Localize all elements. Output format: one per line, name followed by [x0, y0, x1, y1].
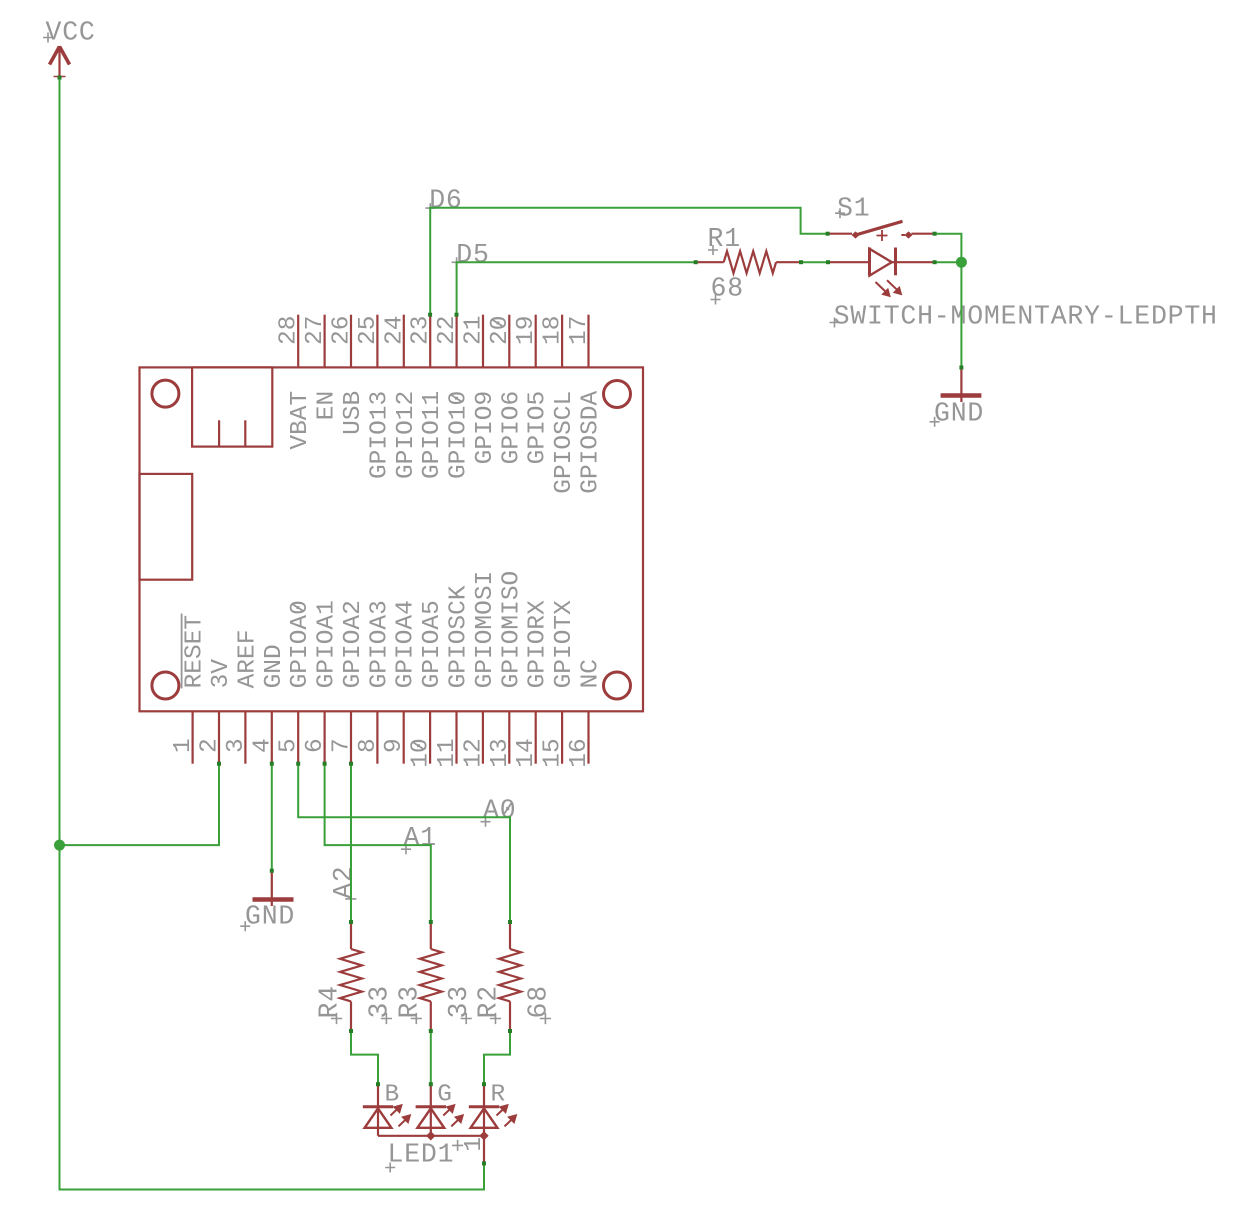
ic U1 pin 8 number: [355, 738, 382, 753]
wire VCC to pin 2: [60, 764, 220, 845]
label D6: [425, 185, 462, 215]
switch S1 contacts: [828, 221, 935, 241]
svg-text:GPIOA2: GPIOA2: [340, 600, 367, 688]
ic U1 pin 19 name GPIO5: [525, 391, 552, 465]
junction LED1 R anode: [479, 1131, 488, 1140]
label R: [491, 1081, 506, 1108]
ic U1 pin 12 name GPIOMOSI: [472, 571, 499, 689]
label GND left: [240, 902, 295, 932]
svg-text:GPIOSDA: GPIOSDA: [578, 391, 605, 494]
label R1: [708, 224, 741, 255]
wire pin 4 to GND: [271, 764, 273, 871]
ic U1 pin 26 stub: [350, 315, 352, 368]
svg-text:1: 1: [461, 1137, 488, 1152]
svg-text:RESET: RESET: [182, 615, 209, 689]
svg-text:8: 8: [355, 738, 382, 753]
ic U1 pin 6 stub: [324, 711, 326, 763]
svg-text:LED1: LED1: [388, 1140, 455, 1170]
ic U1 pin 13 number: [487, 738, 514, 767]
resistor R2: [499, 922, 521, 1031]
ic U1 pin 21 stub: [482, 315, 484, 368]
svg-text:33: 33: [444, 985, 474, 1018]
svg-text:GND: GND: [245, 902, 295, 932]
ic U1 pin 28 name VBAT: [287, 391, 314, 450]
ic U1 pin 14 name GPIORX: [525, 600, 552, 689]
svg-text:33: 33: [364, 985, 394, 1018]
ic U1 pin 24 name GPIO12: [393, 391, 420, 479]
label A0 zero slash: [504, 802, 512, 815]
resistor R3: [420, 922, 442, 1031]
svg-text:GPIOMOSI: GPIOMOSI: [472, 571, 499, 689]
svg-text:68: 68: [523, 985, 553, 1018]
svg-text:3V: 3V: [208, 659, 235, 689]
ic U1 pin 18 name GPIOSCL: [551, 391, 578, 494]
svg-text:G: G: [437, 1081, 452, 1108]
ic U1 pin 8 name GPIOA3: [366, 600, 393, 688]
svg-text:GPIO9: GPIO9: [472, 391, 499, 465]
svg-text:GPIOA4: GPIOA4: [393, 600, 420, 688]
junction LED1 G anode: [426, 1131, 435, 1140]
svg-text:GPIOTX: GPIOTX: [551, 600, 578, 689]
ic U1 pin 15 number: [540, 738, 567, 767]
wire net A1: [325, 764, 431, 922]
ic U1 side connector box: [140, 474, 193, 580]
svg-text:5: 5: [276, 738, 303, 753]
ic U1 pin 13 name GPIOMISO: [498, 571, 525, 689]
svg-text:7: 7: [329, 738, 356, 753]
label S1: [835, 193, 870, 223]
svg-text:A2: A2: [329, 865, 359, 898]
wire net A0: [298, 764, 510, 922]
ic U1 pin 11 name GPIOSCK: [446, 585, 473, 688]
ic U1 pin 17 name GPIOSDA: [578, 391, 605, 494]
ic U1 pin 3 stub: [244, 711, 246, 763]
svg-text:3: 3: [223, 738, 250, 753]
svg-text:GND: GND: [261, 644, 288, 688]
pin 1 marker of LED1: [452, 1137, 488, 1152]
ic U1 pin 7 name GPIOA2: [340, 600, 367, 688]
svg-text:GPIOA5: GPIOA5: [419, 600, 446, 688]
ic U1 pin 16 stub: [587, 711, 589, 763]
ic U1 pin 6 name GPIOA1: [314, 600, 341, 688]
label G: [437, 1081, 452, 1108]
ic U1 hole top-right: [604, 381, 631, 408]
label SWITCH-MOMENTARY-LEDPTH: [830, 301, 1218, 331]
ic U1 pin 11 number: [434, 738, 461, 767]
svg-text:GPIO10: GPIO10: [446, 391, 473, 479]
ic U1 pin 7 stub: [350, 711, 352, 763]
svg-text:R3: R3: [394, 985, 424, 1018]
ic U1 pin 16 name NC: [578, 659, 605, 688]
ic U1 pin 24 number: [381, 316, 408, 345]
wire junction to GND: [960, 262, 962, 367]
ic U1 pin 5 stub: [297, 711, 299, 763]
ic U1 pin 20 number: [487, 316, 514, 345]
svg-text:24: 24: [381, 316, 408, 345]
svg-text:25: 25: [355, 316, 382, 345]
ic U1 pin 5 number: [276, 738, 303, 753]
ic U1 pin 24 stub: [403, 315, 405, 368]
ic U1 pin 10 number: [408, 738, 435, 767]
label R2: [474, 985, 504, 1024]
ic U1 pin 27 name EN: [314, 391, 341, 420]
svg-text:26: 26: [329, 316, 356, 345]
ic U1 pin 8 stub: [376, 711, 378, 763]
label B: [385, 1081, 400, 1108]
ic U1 pin 14 number: [513, 738, 540, 767]
wire LED1 common rail: [378, 1136, 484, 1164]
wire-to-pin connection marks: [58, 76, 964, 1166]
label LED1: [385, 1140, 454, 1173]
ic U1 pin 11 stub: [455, 711, 457, 763]
svg-text:19: 19: [513, 316, 540, 345]
ic U1 hole bottom-left: [152, 672, 179, 699]
ic U1 pin 1 name RESET: [182, 614, 209, 689]
ic U1 pin 9 name GPIOA4: [393, 600, 420, 688]
svg-text:USB: USB: [340, 391, 367, 435]
ic U1 pin 18 number: [540, 316, 567, 345]
svg-text:GPIOA3: GPIOA3: [366, 600, 393, 688]
junction VCC branch: [54, 840, 65, 851]
svg-text:B: B: [385, 1081, 400, 1108]
svg-text:GPIOSCK: GPIOSCK: [446, 585, 473, 688]
ic U1 pin 26 name USB: [340, 391, 367, 435]
label A2: [329, 865, 359, 904]
svg-text:AREF: AREF: [234, 630, 261, 689]
led LED1 B element: [363, 1084, 412, 1136]
svg-text:1: 1: [170, 738, 197, 753]
svg-text:9: 9: [381, 738, 408, 753]
ic U1 pin 2 stub: [218, 711, 220, 763]
ic U1 body: [140, 367, 644, 711]
svg-text:18: 18: [540, 316, 567, 345]
svg-text:GPIO13: GPIO13: [366, 391, 393, 479]
wire net A2: [350, 764, 352, 922]
svg-text:S1: S1: [837, 193, 870, 223]
ic U1 pin 25 number: [355, 316, 382, 345]
svg-text:D6: D6: [429, 185, 462, 215]
ic U1 pin 22 stub: [456, 315, 458, 368]
ic U1 pin 18 stub: [561, 315, 563, 368]
svg-text:12: 12: [460, 738, 487, 767]
ic U1 pin 2 name 3V: [208, 659, 235, 689]
svg-text:GPIOA0: GPIOA0: [287, 600, 314, 688]
power symbol VCC: [50, 46, 70, 78]
ic U1 pin 1 stub: [192, 711, 194, 763]
ic U1 pin 20 name GPIO6: [498, 391, 525, 465]
ic U1 hole bottom-right: [604, 672, 631, 699]
svg-text:GPIO6: GPIO6: [498, 391, 525, 465]
svg-text:GPIOSCL: GPIOSCL: [551, 391, 578, 494]
ic U1 pin 21 number: [461, 316, 488, 345]
svg-text:14: 14: [513, 738, 540, 767]
ic U1 pin 4 number: [249, 738, 276, 753]
junction at S1 output: [956, 257, 967, 268]
resistor R4: [340, 922, 362, 1031]
svg-text:GPIO12: GPIO12: [393, 391, 420, 479]
switch S1 led indicator: [828, 248, 935, 298]
svg-text:GND: GND: [934, 399, 984, 429]
led LED1 G element: [416, 1084, 465, 1136]
ic U1 usb connector box: [192, 367, 272, 446]
svg-text:GPIORX: GPIORX: [525, 600, 552, 689]
wire R4 to LED1 B: [351, 1031, 378, 1084]
led LED1 R element: [469, 1084, 518, 1136]
ic U1 pin 9 number: [381, 738, 408, 753]
label VCC: [43, 18, 96, 48]
svg-text:R2: R2: [474, 985, 504, 1018]
svg-text:2: 2: [197, 738, 224, 753]
label A0: [481, 796, 517, 827]
ic U1 pin 10 stub: [429, 711, 431, 763]
svg-text:11: 11: [434, 738, 461, 767]
svg-text:R: R: [491, 1081, 506, 1108]
svg-text:15: 15: [540, 738, 567, 767]
ic U1 pin 6 number: [302, 738, 329, 753]
ic U1 pin 25 stub: [376, 315, 378, 368]
ic U1 pin 28 stub: [297, 315, 299, 368]
ic U1 pin 4 name GND: [261, 644, 288, 688]
ic U1 pin 12 stub: [482, 711, 484, 763]
svg-text:R4: R4: [315, 985, 345, 1018]
ic U1 hole top-left: [152, 380, 179, 407]
value 68 of R1: [711, 274, 744, 305]
svg-text:21: 21: [461, 316, 488, 345]
ic U1 pin 2 number: [197, 738, 224, 753]
ic U1 pin 3 number: [223, 738, 250, 753]
ic U1 pin 15 name GPIOTX: [551, 600, 578, 689]
value 33 of R3: [444, 985, 474, 1024]
svg-text:VBAT: VBAT: [287, 391, 314, 450]
svg-text:EN: EN: [314, 391, 341, 420]
ic U1 pin 1 number: [170, 738, 197, 753]
wire net D6: [430, 208, 827, 315]
svg-text:SWITCH-MOMENTARY-LEDPTH: SWITCH-MOMENTARY-LEDPTH: [834, 301, 1218, 331]
ic U1 pin 25 name GPIO13: [366, 391, 393, 479]
svg-text:22: 22: [434, 316, 461, 345]
svg-text:GPIO11: GPIO11: [419, 391, 446, 479]
svg-text:28: 28: [276, 316, 303, 345]
ic U1 pin 28 number: [276, 316, 303, 345]
ic U1 pin 19 stub: [535, 315, 537, 368]
ic U1 pin 17 stub: [587, 315, 589, 368]
ic U1 pin 13 stub: [508, 711, 510, 763]
value 33 of R4: [364, 985, 394, 1024]
ic U1 pin 17 number: [566, 316, 593, 345]
svg-text:GPIOA1: GPIOA1: [314, 600, 341, 688]
ic U1 pin 26 number: [329, 316, 356, 345]
ic U1 pin 27 number: [302, 316, 329, 345]
svg-text:NC: NC: [578, 659, 605, 688]
ic U1 pin 21 name GPIO9: [472, 391, 499, 465]
wire R2 to LED1 R: [484, 1031, 510, 1084]
label R3: [394, 985, 424, 1024]
svg-text:VCC: VCC: [46, 18, 96, 48]
svg-text:GPIOMISO: GPIOMISO: [498, 571, 525, 689]
label GND right: [930, 399, 985, 429]
ic U1 pin 10 name GPIOA5: [419, 600, 446, 688]
wire VCC rail left and bottom: [60, 78, 485, 1190]
svg-text:23: 23: [408, 316, 435, 345]
ic U1 pin 22 name GPIO10: [446, 391, 473, 479]
wire S1 led to junction: [935, 261, 962, 263]
wire R3 to LED1 G: [430, 1031, 432, 1084]
value 68 of R2: [523, 985, 553, 1024]
ic U1 pin 5 name GPIOA0: [287, 600, 314, 688]
wire R1 to S1 led: [801, 261, 828, 263]
ic U1 pin 23 name GPIO11: [419, 391, 446, 479]
ic U1 pin 27 stub: [324, 315, 326, 368]
ground symbol right: [941, 368, 982, 403]
wire S1 top to junction: [935, 234, 962, 263]
svg-text:13: 13: [487, 738, 514, 767]
label A1: [401, 823, 437, 854]
ic U1 pin 3 name AREF: [234, 630, 261, 689]
ic U1 pin 12 number: [460, 738, 487, 767]
svg-text:6: 6: [302, 738, 329, 753]
ic U1 pin 7 number: [329, 738, 356, 753]
resistor R1: [696, 251, 801, 273]
ic U1 pin 19 number: [513, 316, 540, 345]
ic U1 pin 23 stub: [429, 315, 431, 368]
ic U1 pin 15 stub: [561, 711, 563, 763]
svg-text:27: 27: [302, 316, 329, 345]
ic U1 pin 23 number: [408, 316, 435, 345]
svg-text:D5: D5: [456, 240, 489, 270]
svg-text:GPIO5: GPIO5: [525, 391, 552, 465]
svg-text:4: 4: [249, 738, 276, 753]
ic U1 pin 22 number: [434, 316, 461, 345]
ic U1 pin 20 stub: [508, 315, 510, 368]
label D5: [452, 240, 490, 270]
ic U1 pin 4 stub: [271, 711, 273, 763]
ground symbol left: [253, 871, 294, 906]
ic U1 pin 9 stub: [403, 711, 405, 763]
ic U1 pin 14 stub: [535, 711, 537, 763]
wire net D5: [457, 262, 696, 315]
svg-text:16: 16: [566, 738, 593, 767]
svg-text:20: 20: [487, 316, 514, 345]
svg-text:17: 17: [566, 316, 593, 345]
label R4: [315, 985, 345, 1024]
ic U1 pin 16 number: [566, 738, 593, 767]
svg-text:10: 10: [408, 738, 435, 767]
